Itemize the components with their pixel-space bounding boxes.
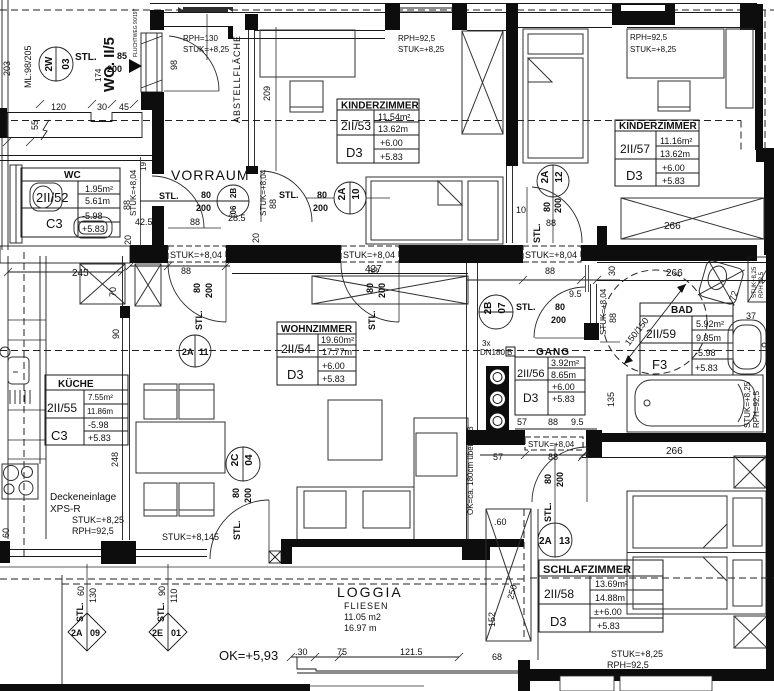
svg-text:11: 11 <box>199 347 209 357</box>
main wall segment wohnzimmer-gang <box>399 245 523 263</box>
nightstand X bottom <box>734 616 767 648</box>
dim 88 wohnzimmer door <box>368 266 378 276</box>
label STUK=+8,145 <box>162 532 219 542</box>
label C3 kueche <box>51 428 68 443</box>
value 19.60m2 <box>321 335 354 345</box>
kz2 chair <box>658 81 690 111</box>
dim 80 kz1 door <box>317 190 327 200</box>
svg-text:D3: D3 <box>626 168 643 183</box>
label STUK=+8,25 kz2 <box>630 45 677 54</box>
svg-text:10: 10 <box>516 205 526 215</box>
sofa corner L <box>297 418 468 540</box>
svg-text:STL.: STL. <box>194 311 204 331</box>
dim 80 200 rotated wohnzimmer door <box>365 283 387 298</box>
svg-text:D3: D3 <box>550 614 567 629</box>
main wall segment wc-vorraum <box>130 245 168 263</box>
label WO. II/5 <box>101 37 118 92</box>
svg-text:01: 01 <box>171 628 181 638</box>
kitchen sink <box>8 357 29 384</box>
kitchen faucet <box>0 347 10 357</box>
label WC <box>64 170 81 181</box>
coffee table <box>328 400 382 460</box>
dim 209 rotated <box>262 86 272 101</box>
wall schlaf west thin <box>537 509 539 660</box>
dim 80 200 rotated vorraum door2 <box>192 283 214 298</box>
wall south wohnzimmer thick <box>281 539 524 564</box>
dim 200 gang-bad door <box>551 315 566 325</box>
wc shelf column <box>10 165 22 243</box>
svg-text:2E: 2E <box>152 628 163 638</box>
dim 135 rotated <box>600 342 620 407</box>
svg-text:.60: .60 <box>494 517 507 527</box>
value +6.00 kz2 <box>662 163 685 173</box>
svg-text:45: 45 <box>119 102 129 112</box>
bad door leaf and arc <box>534 287 591 338</box>
dim 42.5 <box>135 217 153 227</box>
svg-text:+6.00: +6.00 <box>662 163 685 173</box>
svg-text:80: 80 <box>192 283 202 293</box>
wall gang south <box>466 430 602 457</box>
svg-text:WOHNZIMMER: WOHNZIMMER <box>281 324 353 335</box>
bad wc fixture tilted <box>698 259 745 305</box>
nightstand X top <box>734 456 766 488</box>
svg-text:3x: 3x <box>482 339 490 348</box>
label 2II/52 <box>36 190 69 205</box>
label D3 wohnzimmer <box>287 367 304 382</box>
value -5.98 <box>82 211 103 221</box>
wall band hallway outside <box>7 113 142 138</box>
wire loggia outer face line <box>0 566 524 568</box>
svg-text:135: 135 <box>606 392 616 407</box>
wall pier between kinderzimmer windows <box>506 3 518 27</box>
wall gang-bad vertical <box>584 265 599 340</box>
svg-text:110: 110 <box>169 589 179 603</box>
label STL rotated kz2 door <box>523 224 542 244</box>
svg-text:.30: .30 <box>295 647 308 657</box>
svg-text:13.62m: 13.62m <box>378 124 408 134</box>
loggia door leaf and arc <box>210 500 269 559</box>
svg-text:266: 266 <box>666 446 683 457</box>
wall right exterior upper <box>755 4 763 150</box>
entrance door arc <box>164 36 219 91</box>
label STUK=+8,25 rotated bad <box>743 381 752 428</box>
svg-text:5.92m²: 5.92m² <box>696 319 724 329</box>
dim 28.5 <box>228 213 246 223</box>
label STUK=+8,25 vorraum <box>183 45 230 54</box>
wire dashed section line upper rooms <box>0 121 741 153</box>
dim STL 80 200 vorraum door <box>159 190 211 213</box>
label RPH=92,5 rotated bad <box>752 390 761 428</box>
svg-text:STUK=+8,25: STUK=+8,25 <box>611 649 663 659</box>
kz1 room table frame <box>337 99 419 163</box>
value 11.86m <box>87 407 113 416</box>
value +5.83 kz1 <box>380 152 403 162</box>
value -5.98 bad <box>695 348 716 358</box>
svg-text:80: 80 <box>542 202 552 212</box>
svg-text:8.65m: 8.65m <box>551 370 576 380</box>
wire top dashed section line <box>0 9 774 11</box>
loggia wardrobe X tall <box>486 509 531 641</box>
svg-text:88: 88 <box>122 200 132 210</box>
svg-text:266: 266 <box>664 221 681 232</box>
svg-text:+5.83: +5.83 <box>552 394 575 404</box>
svg-text:+6.00: +6.00 <box>552 382 575 392</box>
svg-text:19.60m²: 19.60m² <box>321 335 354 345</box>
label F3 <box>652 357 667 372</box>
svg-text:200: 200 <box>377 283 387 298</box>
kz1 bed <box>366 177 503 244</box>
svg-text:STL.: STL. <box>232 521 242 541</box>
kz1 wardrobe X <box>462 31 503 134</box>
dim 70 rotated kueche <box>108 287 118 297</box>
label 2II/53 <box>341 119 371 133</box>
value 14.88m <box>595 593 625 603</box>
svg-text:2B: 2B <box>229 188 238 198</box>
dim 98 rotated window <box>169 60 179 70</box>
dim 174 rotated <box>94 68 103 82</box>
svg-text:GANG: GANG <box>536 347 570 358</box>
svg-text:200: 200 <box>313 203 328 213</box>
svg-text:98: 98 <box>169 60 179 70</box>
bad room table frame <box>640 303 733 375</box>
svg-text:88: 88 <box>268 199 278 209</box>
dim 30 rotated bad <box>607 266 617 276</box>
dim ticks main wall left <box>126 262 230 270</box>
label RPH=92,5 kz2 <box>630 33 668 42</box>
svg-text:174: 174 <box>94 68 103 82</box>
label STL kz1 door <box>279 190 299 200</box>
svg-text:STL.: STL. <box>543 503 553 523</box>
svg-text:F3: F3 <box>652 357 667 372</box>
svg-text:42.5: 42.5 <box>135 217 153 227</box>
kueche upper cabinet X 2 <box>135 264 161 306</box>
svg-text:STUK=+8,04: STUK=+8,04 <box>343 250 395 260</box>
dim 90 110 rotated <box>157 586 179 603</box>
kitchen counter divider lines <box>8 320 46 459</box>
wall right bad <box>766 255 774 455</box>
svg-text:STUK=+8,25: STUK=+8,25 <box>630 45 677 54</box>
value 9.35m <box>696 333 721 343</box>
svg-text:68: 68 <box>492 652 502 662</box>
svg-text:RPH=92,5: RPH=92,5 <box>630 33 668 42</box>
svg-text:2B: 2B <box>483 302 494 315</box>
label RPH=92,5 kz1 <box>398 34 436 43</box>
wall right exterior lower <box>764 155 774 255</box>
dim 80 200 rotated loggia door <box>231 488 253 503</box>
svg-text:2A: 2A <box>182 347 194 357</box>
dim 88 vorraum door <box>181 217 200 276</box>
svg-text:STL.: STL. <box>516 302 536 312</box>
svg-text:FLIESEN: FLIESEN <box>344 601 389 611</box>
svg-text:57: 57 <box>517 417 527 427</box>
value 11.54m2 <box>378 112 410 122</box>
label STL rotated schlaf door <box>543 503 553 523</box>
svg-text:200: 200 <box>196 203 211 213</box>
marker circle 2A 12 <box>537 165 569 243</box>
wall pier right of kz2 window <box>0 0 1 1</box>
label 2II/56 <box>517 368 545 380</box>
label 2II/57 <box>620 142 650 156</box>
svg-text:90: 90 <box>111 329 121 339</box>
wire dashed section line mid <box>0 350 774 352</box>
dim 200 rotated kz2 door <box>553 198 563 213</box>
svg-text:STUK=+8,25: STUK=+8,25 <box>183 45 230 54</box>
svg-text:RPH=92,5: RPH=92,5 <box>607 660 649 670</box>
bad bathtub <box>627 375 763 432</box>
wall divider kueche-wohnzimmer <box>117 256 134 564</box>
dim 80 gang-bad door <box>555 302 565 312</box>
svg-text:12: 12 <box>554 171 565 183</box>
value 13.62m kz2 <box>660 149 690 159</box>
svg-text:60: 60 <box>1 528 11 538</box>
svg-text:+6.00: +6.00 <box>380 138 403 148</box>
svg-text:9.35m: 9.35m <box>696 333 721 343</box>
value +5.83 wohnzimmer <box>322 374 345 384</box>
svg-text:FLUCHTWEG 90/197: FLUCHTWEG 90/197 <box>133 8 139 57</box>
svg-text:LOGGIA: LOGGIA <box>337 584 403 600</box>
label Deckeneinlage <box>50 492 117 503</box>
value 1.95m2 <box>85 184 113 194</box>
dim 60 wardrobe <box>494 517 507 527</box>
svg-text:80: 80 <box>365 283 375 293</box>
svg-text:2II/55: 2II/55 <box>47 401 77 415</box>
svg-text:+5.83: +5.83 <box>695 363 718 373</box>
svg-text:±+6.00: ±+6.00 <box>594 607 622 617</box>
dim 37 <box>746 311 756 321</box>
svg-text:STL.: STL. <box>75 603 85 623</box>
schlafzimmer door leaf and arc <box>532 447 587 502</box>
dim row 57 88 below gang <box>480 451 590 462</box>
svg-text:XPS-R: XPS-R <box>50 504 81 515</box>
dim 266 kz2 <box>664 221 681 232</box>
svg-text:ABSTELLFLÄCHE: ABSTELLFLÄCHE <box>232 35 242 123</box>
wire dim vertical line wc <box>140 157 142 245</box>
label BAD <box>671 305 693 316</box>
label VORRAUM <box>171 167 250 183</box>
wall interior face kz2 top <box>518 27 740 29</box>
wall bad south <box>597 433 774 442</box>
dim 120 <box>51 102 66 112</box>
bad washbasin <box>728 320 774 374</box>
svg-text:30: 30 <box>607 266 617 276</box>
marker circle 2A 13 <box>538 443 572 557</box>
dim STUK rotated kz1 door <box>259 169 268 216</box>
svg-text:KÜCHE: KÜCHE <box>58 377 94 390</box>
wall divider kz1-kz2 <box>506 3 518 243</box>
svg-text:2II/59: 2II/59 <box>646 327 676 341</box>
wall pier top corner left <box>150 10 164 30</box>
label GANG <box>536 347 570 358</box>
svg-text:C3: C3 <box>51 428 68 443</box>
dim 85 entrance <box>117 51 127 61</box>
svg-text:STUK=+8,04: STUK=+8,04 <box>525 250 577 260</box>
label D3 kz1 <box>346 145 363 160</box>
svg-text:17.77m: 17.77m <box>322 347 352 357</box>
wall left edge dark <box>0 108 7 138</box>
label STL rotated loggia door <box>232 521 242 541</box>
value 5.92m2 <box>696 319 724 329</box>
kitchen stove <box>2 464 38 499</box>
svg-text:9.5: 9.5 <box>569 289 582 299</box>
dining chair bottom2 <box>179 483 214 516</box>
svg-text:+5.83: +5.83 <box>88 433 111 443</box>
svg-text:1.95m²: 1.95m² <box>85 184 113 194</box>
svg-text:-5.98: -5.98 <box>695 348 716 358</box>
svg-text:200: 200 <box>204 283 214 298</box>
door opening stuk box vorraum-wohnzimmer <box>341 246 399 262</box>
svg-text:14.88m: 14.88m <box>595 593 625 603</box>
SEC_WOHN <box>0 256 774 564</box>
svg-text:VORRAUM: VORRAUM <box>171 167 250 183</box>
schlafzimmer room table frame <box>539 560 663 632</box>
wire balcony edge thin line <box>310 685 424 687</box>
svg-text:88: 88 <box>190 217 200 227</box>
svg-text:2II/56: 2II/56 <box>517 368 545 380</box>
svg-text:200: 200 <box>107 64 122 74</box>
svg-text:30: 30 <box>97 102 107 112</box>
dining chair top1 <box>144 384 177 419</box>
svg-text:STL.: STL. <box>159 191 179 201</box>
svg-text:07: 07 <box>497 302 508 314</box>
svg-text:+5.83: +5.83 <box>662 176 685 186</box>
svg-text:STUK=+8,145: STUK=+8,145 <box>162 532 219 542</box>
svg-text:55: 55 <box>30 120 40 130</box>
svg-text:STUK=+8,25: STUK=+8,25 <box>398 45 445 54</box>
svg-text:+5.83: +5.83 <box>82 224 105 234</box>
value 16.97 m <box>344 623 377 633</box>
marker circle 2C 04 <box>226 447 260 481</box>
dim 20 rotated kz1 <box>251 233 261 243</box>
svg-text:16.97 m: 16.97 m <box>344 623 377 633</box>
marker circle 2B 07 <box>479 295 513 329</box>
svg-text:20: 20 <box>251 233 261 243</box>
wc door arc <box>152 176 221 228</box>
wall below entrance door <box>141 92 164 110</box>
kz2 shelf <box>726 29 753 108</box>
dim 55 rotated <box>30 120 40 130</box>
kz1 desk <box>260 30 355 77</box>
value +6.00 gang <box>552 382 575 392</box>
svg-text:STUK=+8,04: STUK=+8,04 <box>259 169 268 216</box>
svg-text:-5.98: -5.98 <box>88 420 109 430</box>
dim 88 gang entry <box>466 266 620 284</box>
svg-text:88: 88 <box>548 452 558 462</box>
label LOGGIA <box>337 584 403 600</box>
value 17.77m <box>322 347 352 357</box>
svg-text:2A: 2A <box>337 188 348 201</box>
dim 88 rotated kz1 door <box>268 199 278 209</box>
vorraum main door leaf and arc <box>168 263 226 322</box>
svg-text:-5.98: -5.98 <box>82 211 103 221</box>
label STL rotated diamond2 <box>156 603 166 623</box>
svg-text:70: 70 <box>108 287 118 297</box>
svg-text:203: 203 <box>2 61 12 76</box>
wire dashed loggia top double <box>0 579 524 584</box>
dim 88 kz2 door <box>546 218 556 228</box>
svg-text:11.54m²: 11.54m² <box>378 112 410 122</box>
svg-text:+5.83: +5.83 <box>597 621 620 631</box>
value 8.65m <box>551 370 576 380</box>
svg-text:RPH=92,5: RPH=92,5 <box>752 390 761 428</box>
svg-text:STL.: STL. <box>75 52 97 63</box>
svg-text:120: 120 <box>51 102 66 112</box>
wc basin fixture <box>74 217 112 238</box>
svg-text:88: 88 <box>368 266 378 276</box>
svg-text:C3: C3 <box>46 216 63 231</box>
marker diamond 2E 01 <box>149 564 187 651</box>
value 11.16m2 <box>660 136 692 146</box>
svg-text:2II/57: 2II/57 <box>620 142 650 156</box>
wc toilet fixture <box>30 183 62 211</box>
label KINDERZIMMER kz2 <box>619 121 698 132</box>
dim 248 rotated <box>110 452 120 467</box>
wall pier with window inset top right <box>612 4 675 25</box>
svg-text:KINDERZIMMER: KINDERZIMMER <box>619 121 698 132</box>
value 5.61m <box>85 196 110 206</box>
wire top facade inner line <box>164 12 740 14</box>
dim 60 130 rotated <box>76 586 98 603</box>
label OK ca 180cm rotated <box>466 426 475 515</box>
svg-text:90: 90 <box>157 586 167 596</box>
svg-text:88: 88 <box>548 417 558 427</box>
label RPH=92,5 schlaf <box>607 660 649 670</box>
label D3 kz2 <box>626 168 643 183</box>
marker circle 2B 06 <box>140 185 249 217</box>
label KINDERZIMMER kz1 <box>341 101 420 112</box>
svg-text:13: 13 <box>559 536 571 547</box>
value 13.69m2 <box>595 579 628 589</box>
label STL rotated wohnzimmer door <box>367 311 377 331</box>
value +5.83 kz2 <box>662 176 685 186</box>
value +5.83 bad <box>695 363 718 373</box>
marker circle 2A 10 <box>306 182 390 214</box>
label XPS-R <box>50 504 81 515</box>
svg-text:2C: 2C <box>230 454 241 467</box>
svg-text:D3: D3 <box>287 367 304 382</box>
door opening stuk box gang-kz2 <box>523 246 581 262</box>
dim 203 <box>2 61 12 76</box>
svg-text:11.16m²: 11.16m² <box>660 136 692 146</box>
wall corner pier top right <box>740 3 757 30</box>
wohnzimmer room table frame <box>277 322 356 385</box>
entrance arrow <box>129 8 142 73</box>
dim STUK=+8,04 rotated wc <box>129 169 138 216</box>
label RPH=92,5 kitchen <box>72 526 114 536</box>
wire loggia left edge <box>61 575 63 688</box>
wall interior face vorraum top <box>164 26 385 39</box>
svg-text:STUK=+8,25: STUK=+8,25 <box>743 381 752 428</box>
value +5.83 gang <box>552 394 575 404</box>
label FLIESEN <box>344 601 389 611</box>
label STUK=+8,25 schlaf <box>611 649 663 659</box>
wire left party wall double line <box>2 0 8 250</box>
main wall segment gang-bad north <box>581 245 757 261</box>
svg-text:80: 80 <box>543 474 553 484</box>
svg-text:80: 80 <box>555 302 565 312</box>
svg-text:BAD: BAD <box>671 305 693 316</box>
label SCHLAFZIMMER <box>543 564 631 576</box>
svg-text:ML:98/205: ML:98/205 <box>23 45 33 88</box>
svg-text:75: 75 <box>337 647 347 657</box>
label C3 <box>46 216 63 231</box>
SEC_LOGGIA <box>0 509 538 691</box>
svg-text:Deckeneinlage: Deckeneinlage <box>50 492 117 503</box>
wall west of vorraum <box>152 108 164 263</box>
value 7.55m <box>88 393 113 402</box>
dim 152 rotated wardrobe <box>487 612 497 627</box>
value +6.00 wohnzimmer <box>322 361 345 371</box>
label D3 schlaf <box>550 614 567 629</box>
